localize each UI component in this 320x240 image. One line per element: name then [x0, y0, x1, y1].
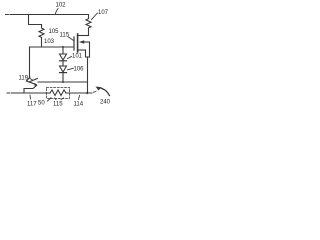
resistor R105	[39, 25, 44, 48]
label D2 leader	[68, 68, 74, 70]
node junction gate net / diode branch	[62, 46, 64, 48]
node junction at rail x28	[28, 14, 30, 16]
node junction diode chain / bottom node	[62, 81, 64, 83]
diode D2	[60, 66, 67, 72]
transistor Q115 drain stub	[78, 35, 89, 37]
wire Q119 emitter to ground	[24, 86, 37, 93]
label 115 leader	[69, 37, 74, 41]
svg-text:114: 114	[74, 102, 84, 108]
svg-text:106: 106	[74, 66, 85, 72]
node label 102 leader	[56, 9, 59, 14]
svg-text:50: 50	[38, 101, 45, 107]
svg-text:103: 103	[44, 39, 55, 45]
transistor Q115 channel bar	[77, 34, 79, 52]
svg-text:101: 101	[72, 54, 83, 60]
wire diode chain to bottom node	[62, 73, 64, 82]
arrow lead 240	[99, 88, 110, 96]
diode D1	[60, 54, 67, 60]
node junction right column / ground	[86, 92, 88, 94]
wire left step from rail	[29, 15, 42, 25]
label 117 leader	[29, 95, 32, 99]
svg-text:102: 102	[56, 3, 67, 9]
label 119 leader	[30, 78, 33, 80]
dashed box 111 around parasitic resistor	[47, 88, 70, 99]
wire diode branch down	[62, 47, 64, 54]
svg-text:117: 117	[27, 102, 37, 108]
label 115b leaders	[55, 98, 64, 100]
svg-text:119: 119	[19, 76, 29, 82]
wire bottom node horizontal	[38, 81, 88, 83]
resistor R115 (parasitic, in dashed box)	[50, 90, 66, 96]
wire bottom ground rail	[7, 92, 14, 94]
label 114 leader	[79, 96, 80, 100]
transistor Q115 body stub with arrow	[84, 41, 90, 43]
wire gate net horizontal	[30, 46, 74, 48]
svg-text:105: 105	[49, 29, 60, 35]
wire source/body down right side	[89, 42, 91, 57]
wire top supply rail	[6, 14, 14, 16]
svg-text:115: 115	[53, 102, 63, 108]
wire left branch down to transistor	[29, 47, 31, 77]
svg-text:107: 107	[98, 10, 109, 16]
label 50 leader	[48, 98, 52, 101]
svg-text:115: 115	[60, 33, 70, 39]
svg-text:240: 240	[100, 100, 111, 106]
transistor Q115 (MOSFET) gate bar	[73, 37, 75, 50]
transistor Q115 source stub	[78, 49, 86, 51]
transistor Q119 (left bipolar)	[27, 77, 31, 81]
wire between diodes	[62, 61, 64, 66]
label D1 leader	[68, 57, 72, 59]
label 107 leader	[92, 13, 98, 20]
resistor R107	[86, 15, 91, 36]
